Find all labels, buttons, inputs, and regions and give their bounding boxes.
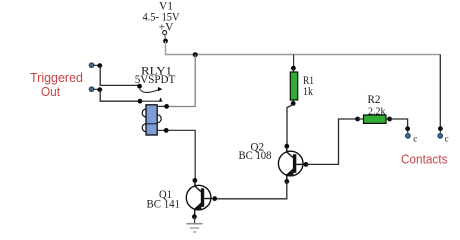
- wire R1 bottom to Q2 collector: [287, 105, 293, 146]
- ground: [186, 224, 202, 232]
- resistor R2 right pin dot: [387, 117, 392, 122]
- resistor R1 top pin dot: [291, 66, 296, 71]
- relay switch NC contact tick: [158, 87, 163, 91]
- transistor Q2 emitter pin dot: [284, 179, 289, 184]
- relay coil top pin dot: [164, 104, 169, 109]
- contact left pin dot: [405, 126, 410, 131]
- transistor Q2 base pin dot: [304, 162, 309, 167]
- transistor Q1 collector pin dot: [193, 178, 198, 183]
- wire R2 right to left contact: [390, 119, 408, 127]
- svg-text:Out: Out: [41, 85, 60, 99]
- relay switch NO contact wire: [140, 100, 162, 102]
- terminal Triggered Out top circle: [89, 63, 94, 68]
- resistor R1 top stub: [292, 68, 294, 72]
- wire right drop to contact: [439, 55, 441, 128]
- svg-text:Triggered: Triggered: [30, 71, 83, 85]
- terminal stub bottom: [94, 88, 98, 90]
- contact right stub: [439, 129, 441, 134]
- terminal Triggered Out bottom circle: [89, 87, 94, 92]
- contact left stub: [407, 129, 409, 134]
- wire Q2 emitter down-left to Q1 base: [215, 181, 287, 198]
- svg-text:c: c: [413, 134, 417, 144]
- transistor Q2 symbol: [278, 146, 304, 181]
- resistor R2 body: [364, 115, 387, 123]
- relay switch NO contact arrow: [159, 97, 163, 101]
- relay coil loop left top: [142, 109, 150, 117]
- wire Q2 base right-up to R2: [306, 119, 357, 164]
- wire terminal bottom to relay switch contact: [100, 90, 140, 102]
- contact right terminal circle: [438, 134, 443, 139]
- relay coil bottom pin dot: [164, 128, 169, 133]
- pin dot below +V: [163, 39, 168, 44]
- resistor R1 bottom stub: [292, 100, 294, 103]
- resistor R1 body: [290, 72, 297, 100]
- svg-text:c: c: [445, 134, 449, 144]
- transistor Q2 collector pin dot: [284, 144, 289, 149]
- svg-text:BC 141: BC 141: [147, 198, 181, 210]
- relay coil top pin stub: [157, 105, 165, 107]
- junction dot on rail at coil branch: [193, 52, 198, 57]
- transistor Q1 emitter pin dot: [192, 214, 197, 219]
- resistor R2 left pin dot: [355, 117, 360, 122]
- wire +V rail: down then right along top: [166, 41, 441, 55]
- pin dot terminal top: [97, 63, 102, 68]
- relay coil loop left bottom: [142, 124, 150, 132]
- ground stem: [194, 217, 196, 224]
- contact right pin dot: [438, 126, 443, 131]
- contact left terminal circle: [406, 134, 411, 139]
- svg-text:BC 108: BC 108: [239, 150, 272, 162]
- relay coil body: [146, 105, 157, 135]
- resistor R2 left stub: [358, 118, 364, 120]
- wire stub from +V terminal: [164, 35, 167, 40]
- relay coil bottom pin stub: [157, 129, 164, 131]
- wire from relay coil bottom down to Q1 collector: [167, 130, 195, 180]
- svg-text:R1: R1: [303, 75, 314, 87]
- relay coil divider line: [146, 123, 157, 125]
- wire from rail junction down to relay coil top: [168, 55, 195, 107]
- svg-text:1k: 1k: [303, 86, 313, 98]
- pin dot terminal bottom: [97, 87, 102, 92]
- svg-text:Contacts: Contacts: [401, 153, 448, 167]
- terminal stub top: [94, 64, 98, 66]
- svg-text:R2: R2: [368, 94, 381, 106]
- transistor Q1 symbol: [186, 180, 212, 215]
- relay switch arm: [140, 89, 161, 93]
- relay coil loop right: [153, 115, 161, 123]
- relay switch pole dot: [137, 84, 142, 89]
- transistor Q1 base pin dot: [212, 196, 217, 201]
- resistor R2 right stub: [386, 118, 390, 120]
- resistor R1 top lead: [293, 55, 295, 67]
- wire terminal top to relay switch pole: [100, 66, 139, 86]
- relay switch contact dot: [138, 99, 143, 104]
- resistor R1 bottom pin dot: [291, 101, 296, 106]
- power terminal +V circle: [163, 31, 167, 35]
